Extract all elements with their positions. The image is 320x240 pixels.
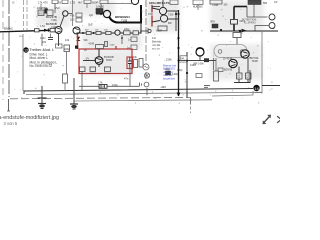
- wire red cap box: [127, 57, 133, 69]
- svg-text:-42V: -42V: [160, 85, 166, 89]
- resistor vert left col: [214, 71, 219, 81]
- wire q3 right: [167, 10, 179, 12]
- wire red drop: [77, 35, 79, 50]
- wire q0 to q1: [60, 16, 64, 27]
- ground 2: [70, 103, 78, 105]
- resistor under q1: [56, 44, 63, 48]
- wire stub to connector: [140, 30, 148, 32]
- wire top rail stub: [107, 3, 133, 5]
- svg-text:13: 13: [24, 48, 28, 52]
- wire q up from base: [100, 4, 102, 14]
- resistor 10k tall: [134, 60, 138, 68]
- node connector mid: [139, 83, 141, 87]
- svg-text:4148: 4148: [190, 63, 196, 67]
- svg-text:14: 14: [254, 86, 259, 91]
- svg-text:MTW1Ω: MTW1Ω: [179, 62, 187, 64]
- partial icon right edge: [278, 117, 281, 123]
- wire q3 left: [152, 8, 159, 10]
- resistor top small: [52, 0, 58, 4]
- terminal T2: [269, 23, 275, 29]
- wire res a down: [238, 79, 240, 83]
- wire bottom bus 2: [26, 92, 262, 94]
- svg-text:220: 220: [42, 41, 47, 44]
- svg-text:220p: 220p: [64, 47, 70, 51]
- resistor emitter R: [231, 20, 238, 25]
- wire top drop b: [54, 4, 56, 9]
- wire top link: [152, 6, 160, 8]
- expand icon: [263, 115, 272, 125]
- wire to ground 1: [41, 86, 43, 104]
- resistor top r2 dark: [248, 0, 261, 5]
- wire thick rail: [109, 5, 141, 23]
- wire signal line y33: [77, 32, 142, 34]
- wire bottom right rail: [262, 85, 280, 87]
- component above red box: [96, 45, 104, 49]
- transistor BC237B: [63, 11, 68, 16]
- svg-text:10k: 10k: [65, 38, 70, 42]
- resistor sig d: [124, 31, 131, 35]
- wire left border foot: [8, 99, 10, 111]
- wire collector bus: [175, 11, 177, 31]
- node rail dot 221: [220, 29, 222, 31]
- transistor driver right: [196, 48, 204, 56]
- wire stub x122: [121, 35, 123, 44]
- resistor red1: [80, 67, 86, 72]
- wire right border: [261, 31, 263, 94]
- resistor mkt box: [170, 0, 178, 5]
- resistor 680R: [158, 26, 167, 31]
- scan noise speckle layer: [7, 1, 273, 104]
- wire res b down: [247, 79, 249, 83]
- wire cap drop left: [66, 52, 68, 74]
- node branch dot: [178, 60, 180, 62]
- wire Q1 emitter down: [58, 34, 60, 46]
- resistor 10k dark: [96, 9, 103, 14]
- svg-text:100n: 100n: [40, 37, 46, 40]
- wire below box left: [79, 85, 99, 87]
- node junction j1: [82, 32, 84, 34]
- wire Q2 base: [83, 60, 95, 62]
- wire center divider: [145, 0, 147, 79]
- capacitor below line: [48, 37, 53, 39]
- transistor BDY93 upper: [241, 50, 249, 58]
- node mv dot1: [177, 13, 179, 15]
- svg-text:47n: 47n: [124, 77, 129, 81]
- resistor 0.47 b: [246, 73, 252, 79]
- wire q3 up: [162, 0, 164, 7]
- capacitor mid: [105, 42, 108, 47]
- svg-text:150p: 150p: [177, 69, 183, 72]
- wire drop x254: [253, 5, 255, 18]
- resistor top mid: [193, 0, 203, 5]
- svg-text:38V AC: 38V AC: [4, 27, 13, 31]
- wire vertical x141 low: [140, 22, 142, 34]
- wire below box right: [107, 85, 139, 87]
- node red drop blob: [75, 46, 78, 49]
- resistor input R b: [50, 28, 57, 32]
- resistor vertical left: [63, 74, 68, 83]
- capacitor 10n box: [131, 37, 137, 42]
- wire thick vertical: [233, 7, 235, 31]
- node x122 dot: [121, 37, 123, 39]
- wire cap drop: [129, 68, 131, 86]
- capacitor C in top: [38, 10, 44, 16]
- wire stub left: [81, 72, 83, 91]
- resistor right small: [218, 68, 223, 72]
- diode input D: [44, 29, 48, 32]
- wire second vertical: [186, 52, 188, 98]
- wire thick top: [234, 6, 247, 8]
- resistor sig b: [96, 31, 101, 34]
- wire top mid drop: [197, 5, 199, 11]
- wire red box outline: [79, 49, 132, 74]
- wire red stub: [115, 46, 117, 49]
- wire q6 down: [238, 67, 240, 74]
- capacitor 100p box: [131, 45, 137, 50]
- node out dot: [239, 30, 241, 32]
- resistor 1.7k body: [99, 85, 107, 89]
- resistor sig e: [133, 31, 138, 35]
- value eq marks: [204, 85, 210, 87]
- wire q4 left: [152, 21, 160, 23]
- wire branch y60: [179, 60, 217, 62]
- wire left page edge: [2, 0, 4, 100]
- svg-text:IC: IC: [12, 1, 15, 5]
- wire main vertical: [178, 10, 180, 96]
- transistor pair right: [73, 27, 80, 34]
- wire q4 right: [168, 18, 179, 20]
- wire left col: [213, 58, 215, 70]
- wire input line: [0, 30, 55, 32]
- wire bottom bus 3: [10, 97, 191, 98]
- wire left col down: [215, 58, 217, 71]
- terminal T1: [269, 14, 275, 20]
- wire to terminal 1: [246, 7, 248, 18]
- resistor top c2: [100, 0, 108, 4]
- wire red seg top: [151, 5, 153, 13]
- source AC symbol: [143, 64, 149, 70]
- wire drop at 42: [41, 34, 43, 46]
- wire to terminal 2: [255, 26, 269, 32]
- resistor 47k box: [76, 13, 82, 17]
- node mv arrowhead: [177, 93, 181, 97]
- svg-text:3 von 5: 3 von 5: [4, 121, 18, 126]
- resistor 390r: [166, 71, 171, 75]
- wire bottom corner down: [190, 97, 192, 104]
- transistor Q4: [160, 15, 167, 22]
- node junction j2: [93, 32, 95, 34]
- wire x72 vertical: [72, 0, 74, 26]
- wire bus right link: [212, 91, 253, 96]
- wire base driver: [96, 13, 103, 15]
- node collector dot: [175, 13, 177, 15]
- wire drop c1: [86, 4, 88, 9]
- resistor 1k5 box: [76, 18, 82, 22]
- resistor red3: [105, 67, 111, 72]
- resistor mid top a: [180, 56, 187, 60]
- ground 1: [38, 97, 47, 99]
- resistor sig c: [106, 31, 111, 34]
- wire top drop a: [40, 4, 42, 10]
- resistor dark top: [45, 9, 49, 14]
- resistor 0.47 a: [237, 73, 243, 79]
- transistor top circle: [131, 0, 138, 5]
- svg-text:100µ: 100µ: [112, 83, 118, 87]
- svg-text:150k: 150k: [166, 58, 172, 62]
- transistor Q3: [159, 7, 166, 14]
- resistor red2: [90, 67, 96, 72]
- wire drop x147: [146, 88, 148, 95]
- wire q5 down: [247, 58, 249, 73]
- capacitor in red box: [128, 60, 132, 62]
- wire Q2 emitter: [98, 64, 100, 67]
- svg-text:1.7k: 1.7k: [98, 81, 104, 85]
- node rail arrow: [242, 29, 248, 33]
- svg-text:angelötet: angelötet: [163, 76, 175, 80]
- wire red seg bottom: [151, 16, 153, 27]
- wire section divider B: [26, 0, 28, 30]
- node connector: [148, 29, 151, 32]
- transistor driver Q: [103, 10, 110, 17]
- wire down from rail: [236, 38, 238, 46]
- transistor TO3 outline: [214, 45, 247, 58]
- wire emitter bus: [234, 70, 250, 83]
- wire bottom bus 1: [24, 89, 253, 95]
- wire left inner border: [8, 0, 10, 97]
- wire driver down: [199, 56, 201, 61]
- resistor branch dark: [204, 58, 209, 62]
- node mv dot3: [177, 47, 179, 49]
- svg-text:No.7508 095 02: No.7508 095 02: [30, 64, 53, 68]
- wire out rail: [210, 30, 278, 32]
- resistor under rail: [233, 33, 241, 38]
- diode D1: [76, 37, 80, 41]
- resistor 10k tall b: [139, 59, 143, 68]
- resistor sig a: [86, 31, 91, 34]
- source circle x: [144, 73, 149, 78]
- resistor input R a: [35, 29, 40, 32]
- wire res left down: [64, 83, 66, 91]
- svg-text:7108: 7108: [121, 18, 128, 22]
- node 13: [23, 47, 28, 52]
- svg-text:220R: 220R: [99, 85, 105, 89]
- svg-text:a-endstufe-modifiziert.jpg: a-endstufe-modifiziert.jpg: [0, 115, 59, 121]
- capacitor 220p block: [64, 45, 70, 52]
- wire Q2 collector: [98, 44, 100, 57]
- node base dot: [100, 13, 102, 15]
- resistor R in top: [47, 10, 53, 16]
- svg-text:+: +: [273, 27, 275, 31]
- resistor top small2: [62, 0, 68, 4]
- wire riser x23: [22, 34, 24, 91]
- node sv dot: [186, 72, 188, 74]
- wire section divider A: [23, 0, 25, 30]
- resistor top r1: [210, 0, 222, 4]
- node 14: [253, 85, 259, 91]
- transistor BC556B: [55, 27, 62, 34]
- wire to ground 2: [73, 78, 75, 104]
- transistor sig small: [115, 30, 120, 35]
- node mv dot2: [177, 37, 179, 39]
- resistor mid bottom: [196, 74, 202, 78]
- resistor dark small: [212, 24, 218, 28]
- transistor BC546B: [95, 57, 103, 65]
- node branch-sv dot: [186, 59, 188, 61]
- resistor top c1: [84, 0, 91, 4]
- svg-text:a-c on: a-c on: [152, 47, 160, 51]
- transistor BDY93 lower: [229, 59, 237, 67]
- svg-text:17k 470: 17k 470: [38, 1, 48, 5]
- wire bottom bus 4: [74, 100, 212, 101]
